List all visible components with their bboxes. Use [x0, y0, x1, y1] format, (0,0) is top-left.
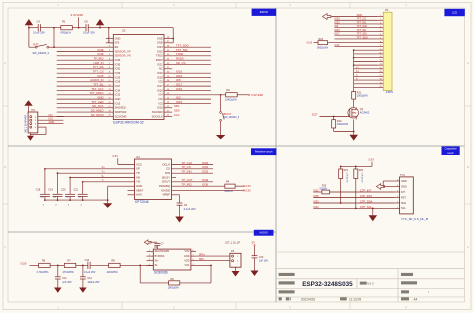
svg-text:IO13: IO13 — [115, 101, 121, 105]
svg-text:3V3: 3V3 — [115, 41, 120, 45]
svg-text:GND: GND — [49, 120, 55, 124]
power flag 5V audio — [252, 241, 256, 256]
svg-text:4: 4 — [380, 26, 381, 28]
svg-text:0Ω±5%: 0Ω±5% — [320, 189, 327, 191]
svg-text:IO23: IO23 — [157, 45, 163, 49]
ground below C13 — [251, 271, 259, 277]
svg-text:3.3V: 3.3V — [334, 44, 339, 47]
svg-text:Q1: Q1 — [360, 107, 364, 111]
svg-text:9: 9 — [380, 45, 381, 47]
power flag 3.3V ESP right — [248, 93, 263, 97]
svg-text:R2: R2 — [227, 88, 231, 92]
svg-text:2: 2 — [149, 255, 150, 257]
svg-text:TP_DIN: TP_DIN — [182, 169, 192, 173]
wire CTP_SCL — [313, 205, 394, 209]
svg-text:IN+: IN+ — [155, 260, 159, 263]
svg-text:GND: GND — [184, 255, 190, 258]
svg-text:10KΩ±1%: 10KΩ±1% — [225, 97, 237, 101]
svg-text:TFT_SDI: TFT_SDI — [357, 33, 367, 36]
wire TP_IRQ with resistor R4 — [172, 181, 251, 193]
svg-text:3.3V: 3.3V — [368, 158, 374, 162]
wire CTP_SDA — [313, 199, 394, 203]
title row product name — [279, 273, 413, 276]
svg-text:IO33: IO33 — [202, 169, 209, 173]
wire touch XY lines with caps — [44, 165, 134, 183]
svg-text:RST: RST — [33, 42, 39, 46]
svg-text:AO3402: AO3402 — [360, 111, 370, 115]
svg-text:IO19: IO19 — [157, 71, 163, 75]
wire IO0 BOOT net — [172, 94, 226, 96]
wire U3 GND VBAT AUX — [108, 186, 135, 200]
svg-text:IO16: IO16 — [334, 29, 340, 32]
svg-text:IO22: IO22 — [157, 49, 163, 53]
svg-text:11:13:09: 11:13:09 — [349, 297, 361, 301]
svg-text:CTP_SCL: CTP_SCL — [360, 205, 373, 209]
svg-text:560Ω±5%: 560Ω±5% — [317, 46, 329, 49]
svg-text:2: 2 — [380, 19, 381, 21]
svg-text:16: 16 — [379, 71, 381, 73]
svg-text:22KΩ±5%: 22KΩ±5% — [107, 271, 119, 274]
svg-text:4: 4 — [405, 306, 407, 310]
svg-text:JST_1.25_2P: JST_1.25_2P — [225, 241, 240, 244]
svg-text:14PIN: 14PIN — [386, 90, 393, 94]
svg-text:C18: C18 — [36, 189, 41, 192]
svg-text:IO26: IO26 — [115, 80, 121, 84]
svg-text:AUDIO: AUDIO — [260, 231, 268, 235]
svg-text:0.1uF 25V: 0.1uF 25V — [84, 271, 96, 274]
svg-text:SENSOR_VN: SENSOR_VN — [115, 54, 131, 58]
svg-text:IO33: IO33 — [334, 18, 340, 21]
svg-text:C6: C6 — [184, 203, 188, 207]
svg-text:IO32: IO32 — [334, 21, 340, 24]
capacitor C7 bypass — [151, 242, 165, 249]
power flag 3.3V XPT2046 — [112, 154, 134, 164]
svg-text:20: 20 — [379, 86, 381, 88]
wire CTP_RST — [313, 194, 394, 198]
svg-text:4: 4 — [405, 3, 407, 7]
svg-text:SCS/CMD: SCS/CMD — [115, 114, 127, 118]
svg-text:15: 15 — [379, 67, 381, 69]
capacitor C4 — [33, 19, 45, 34]
svg-text:IO17: IO17 — [157, 84, 163, 88]
svg-text:5: 5 — [380, 30, 381, 32]
svg-text:3: 3 — [149, 259, 150, 261]
svg-text:B: B — [467, 165, 469, 169]
connector P3 — [26, 108, 38, 133]
wire Q1 gate IO27 — [312, 113, 350, 118]
wire LCD 3.3V row — [334, 44, 377, 47]
svg-text:5V: 5V — [252, 241, 256, 245]
svg-text:SCL: SCL — [401, 207, 406, 210]
svg-text:P1: P1 — [385, 8, 389, 12]
svg-text:IO2: IO2 — [159, 101, 164, 105]
svg-text:GND: GND — [157, 41, 163, 45]
svg-text:IO4: IO4 — [334, 25, 339, 28]
svg-text:1: 1 — [380, 15, 381, 17]
svg-text:6: 6 — [397, 180, 398, 182]
svg-text:104: 104 — [78, 197, 81, 199]
svg-text:Y-: Y- — [356, 75, 358, 77]
svg-text:IO33: IO33 — [115, 71, 121, 75]
svg-text:VO2: VO2 — [185, 250, 191, 253]
svg-text:1: 1 — [57, 3, 59, 7]
svg-text:RXD0: RXD0 — [156, 58, 163, 62]
svg-text:IO15: IO15 — [157, 106, 163, 110]
section label ESP32 — [252, 9, 277, 16]
svg-text:5: 5 — [192, 264, 193, 266]
svg-text:CTP_SDA: CTP_SDA — [360, 199, 373, 203]
resistor R8 — [107, 260, 121, 275]
svg-text:19: 19 — [379, 82, 381, 84]
svg-text:3: 3 — [289, 306, 291, 310]
svg-text:13: 13 — [379, 60, 381, 62]
svg-text:2: 2 — [397, 202, 398, 204]
svg-text:GND: GND — [157, 36, 163, 40]
ground touch cap bus — [103, 203, 112, 208]
svg-text:Capacitive: Capacitive — [445, 146, 458, 150]
svg-text:TFT_RS: TFT_RS — [357, 21, 367, 24]
svg-text:C8: C8 — [84, 19, 88, 23]
ground below P3 — [27, 136, 34, 141]
wire bundle U2 left nets — [57, 48, 106, 117]
svg-text:47KΩ±5%: 47KΩ±5% — [63, 271, 75, 274]
wire captouch GND rows to arrow — [383, 181, 394, 187]
resistor R2 — [225, 88, 248, 101]
svg-text:X-: X- — [356, 79, 359, 81]
svg-text:104: 104 — [66, 197, 69, 199]
resistor R21 — [352, 91, 369, 107]
svg-text:R23: R23 — [359, 170, 364, 172]
svg-text:BOOT: BOOT — [224, 112, 232, 116]
ground captouch — [369, 215, 378, 221]
resistor R9 feedback — [140, 265, 212, 290]
svg-text:3: 3 — [397, 196, 398, 198]
svg-text:P3: P3 — [32, 108, 36, 112]
svg-text:SENSOR_VP: SENSOR_VP — [115, 49, 131, 53]
svg-text:IO35: IO35 — [115, 62, 121, 66]
svg-text:GND: GND — [357, 14, 363, 17]
svg-text:TXD0: TXD0 — [156, 54, 163, 58]
wire LCD GND bus arrow — [331, 14, 378, 17]
wire EN net — [53, 46, 106, 48]
section label AUDIO — [254, 230, 274, 236]
bus arrow audio left — [144, 240, 151, 245]
section label Capacitive touch — [442, 146, 460, 155]
connector P2 TYC touch panel — [395, 173, 428, 221]
svg-text:IO4: IO4 — [159, 93, 164, 97]
svg-text:1nF 25V: 1nF 25V — [62, 281, 72, 284]
wire U2 3V3 to rail — [109, 28, 114, 43]
svg-text:104: 104 — [53, 197, 56, 199]
svg-text:TFT_SDO: TFT_SDO — [357, 36, 368, 39]
svg-text:IO13: IO13 — [307, 40, 313, 44]
ground below Q1 — [349, 135, 358, 141]
capacitor C13 — [252, 256, 269, 271]
power flag 3.3V ESP — [71, 13, 84, 28]
svg-text:SWP/SD3: SWP/SD3 — [115, 110, 127, 114]
section label LCD — [444, 9, 464, 16]
power flag above P3 — [24, 100, 32, 112]
resistor R7 — [63, 260, 76, 275]
wire bundle touch SPI — [172, 161, 214, 182]
svg-text:BYPASS: BYPASS — [155, 255, 165, 258]
svg-text:104: 104 — [40, 197, 43, 199]
svg-text:R22: R22 — [344, 170, 349, 172]
capacitor C6 on VREF — [172, 195, 197, 217]
power flag 3.3V rail arrow 1 — [25, 19, 33, 28]
capacitor C11 — [55, 265, 72, 287]
svg-text:VO1: VO1 — [185, 264, 191, 267]
ground below P4 — [232, 271, 240, 277]
capacitor C21 — [74, 182, 88, 207]
svg-text:CTP_RST: CTP_RST — [360, 194, 373, 198]
svg-text:4: 4 — [149, 264, 150, 266]
svg-text:1: 1 — [397, 207, 398, 209]
power flag 3.3V rail arrow 2 — [96, 19, 104, 28]
capacitor C12 — [80, 265, 100, 287]
svg-text:GND: GND — [115, 36, 121, 40]
svg-text:SC8002B: SC8002B — [154, 271, 168, 275]
svg-text:SDA: SDA — [401, 202, 406, 205]
svg-text:TYC_6P_0.5_NL_B: TYC_6P_0.5_NL_B — [401, 217, 428, 221]
wire audio input chain — [30, 265, 154, 267]
svg-text:4: 4 — [397, 191, 398, 193]
transistor Q1 AO3402 — [348, 107, 370, 120]
svg-text:/V1.3: /V1.3 — [367, 282, 374, 286]
svg-text:U3: U3 — [136, 155, 140, 159]
svg-text:IO36: IO36 — [202, 182, 209, 186]
svg-text:8: 8 — [192, 250, 193, 252]
capacitor C8 — [83, 19, 95, 34]
svg-text:IO17: IO17 — [334, 33, 340, 36]
svg-text:B: B — [4, 165, 6, 169]
wire CTP_INT with resistor R25 — [313, 186, 394, 194]
svg-text:SW_240404_3: SW_240404_3 — [224, 117, 240, 119]
wire touch cap ground bus — [45, 199, 109, 203]
svg-text:ESP32-3248S035: ESP32-3248S035 — [302, 281, 353, 288]
svg-text:100Ω±5%: 100Ω±5% — [357, 94, 369, 97]
svg-text:VREF: VREF — [162, 193, 170, 197]
svg-text:TYC: TYC — [400, 173, 405, 177]
svg-text:2: 2 — [173, 3, 175, 7]
svg-text:IO3: IO3 — [49, 117, 54, 121]
svg-text:4.7KΩ±5%: 4.7KΩ±5% — [37, 271, 50, 274]
op-amp U4 SC8002B audio amplifier — [147, 245, 197, 274]
svg-text:SW_240404_3: SW_240404_3 — [33, 52, 50, 55]
svg-text:ESP32: ESP32 — [260, 10, 269, 14]
svg-text:10: 10 — [379, 49, 381, 51]
section label Resistive touch — [251, 148, 276, 155]
svg-text:IO0: IO0 — [159, 97, 164, 101]
svg-text:R1: R1 — [62, 19, 66, 23]
wire P3 pin4 to ground — [30, 127, 46, 136]
op-amp U3 XPT2046 body — [135, 155, 172, 204]
svg-text:SPK+: SPK+ — [199, 253, 206, 256]
ground below BOOT — [216, 135, 226, 139]
svg-text:RST: RST — [401, 196, 406, 199]
capacitor C20 — [61, 177, 75, 206]
title row product model ESP32-3248S035 — [279, 279, 417, 289]
svg-text:2: 2 — [173, 306, 175, 310]
svg-text:INT: INT — [401, 191, 405, 194]
svg-text:5: 5 — [397, 185, 398, 187]
title row product number — [279, 290, 429, 294]
svg-text:C11: C11 — [62, 277, 67, 280]
svg-text:SPK-: SPK- — [199, 258, 205, 261]
svg-text:IO25: IO25 — [115, 75, 121, 79]
svg-text:CTP_INT: CTP_INT — [360, 188, 372, 192]
switch SW2 BOOT — [220, 95, 240, 135]
wire IOVDD 3.3V — [172, 188, 251, 192]
wire speaker outputs — [196, 253, 230, 261]
svg-text:SCK/CLK: SCK/CLK — [152, 114, 163, 118]
svg-text:Y-: Y- — [102, 178, 104, 182]
connector P4 speaker JST — [225, 241, 241, 271]
svg-text:SD1/SD0: SD1/SD0 — [152, 110, 163, 114]
svg-text:IN-: IN- — [155, 264, 158, 267]
connector P1 LCD 14PIN — [378, 8, 394, 94]
resistor R24 — [307, 38, 378, 49]
svg-text:R24: R24 — [319, 38, 324, 41]
svg-text:LCD: LCD — [452, 10, 457, 14]
svg-text:8: 8 — [380, 41, 381, 43]
svg-text:X+: X+ — [102, 165, 106, 169]
svg-text:0RΩ±1%: 0RΩ±1% — [61, 31, 72, 35]
capacitor C10 — [84, 259, 96, 274]
title row date — [279, 297, 418, 301]
capacitor C19 — [48, 173, 62, 206]
svg-text:IO16: IO16 — [157, 88, 163, 92]
ground below C11 — [54, 288, 62, 293]
svg-text:SD_MOSI: SD_MOSI — [91, 113, 104, 117]
svg-text:C20: C20 — [61, 189, 66, 192]
svg-text:IO27: IO27 — [312, 113, 318, 117]
svg-text:IO1: IO1 — [49, 113, 54, 117]
svg-text:A4: A4 — [414, 297, 418, 301]
svg-text:TFT_RD: TFT_RD — [357, 29, 367, 32]
svg-text:IO14: IO14 — [115, 88, 121, 92]
svg-text:IO12: IO12 — [115, 93, 121, 97]
svg-text:3.3V: 3.3V — [245, 188, 251, 192]
wire LCD backlight vertical — [353, 49, 378, 91]
svg-text:6: 6 — [380, 34, 381, 36]
svg-text:0.1uF 20V: 0.1uF 20V — [33, 31, 45, 35]
bus entry arrow LCD — [323, 14, 331, 20]
svg-text:GND: GND — [115, 97, 121, 101]
svg-text:7: 7 — [380, 38, 381, 40]
wire 3.3V rail — [28, 27, 173, 29]
resistor R23 — [354, 166, 364, 208]
svg-text:P4: P4 — [231, 249, 235, 253]
power flag 3.3V captouch — [340, 158, 374, 168]
svg-text:18: 18 — [379, 79, 381, 81]
svg-text:12: 12 — [379, 56, 381, 58]
svg-text:SHUTDOWN: SHUTDOWN — [155, 250, 170, 253]
svg-text:U2: U2 — [122, 29, 126, 33]
switch SW1 RST — [29, 28, 54, 55]
svg-text:CLK: CLK — [174, 113, 180, 117]
svg-text:NC: NC — [159, 67, 163, 71]
svg-text:IO21: IO21 — [157, 62, 163, 66]
wire captouch ground stem — [372, 208, 374, 215]
wire bundle U2 right nets — [172, 44, 211, 117]
svg-text:C21: C21 — [74, 189, 79, 192]
svg-text:IO34: IO34 — [115, 58, 121, 62]
svg-text:4.7KΩ±1%: 4.7KΩ±1% — [361, 173, 363, 183]
capacitor C18 — [36, 169, 50, 207]
svg-text:17: 17 — [379, 75, 381, 77]
svg-text:SD_CS: SD_CS — [176, 61, 186, 65]
svg-text:6: 6 — [192, 259, 193, 261]
svg-text:3: 3 — [289, 3, 291, 7]
svg-text:Y+: Y+ — [102, 169, 106, 173]
svg-text:14: 14 — [379, 64, 381, 66]
svg-text:0.1uF 20V: 0.1uF 20V — [184, 207, 196, 211]
svg-text:X-: X- — [102, 174, 105, 178]
U2 pin names and numbers — [106, 36, 172, 118]
svg-text:0.1uF 20V: 0.1uF 20V — [83, 31, 95, 35]
svg-text:MC-1.25-4P#WT: MC-1.25-4P#WT — [26, 114, 28, 132]
wire bundle LCD data rows — [334, 18, 377, 40]
resistor R22 — [339, 166, 349, 203]
resistor R1 — [61, 19, 73, 34]
title block table — [276, 268, 465, 302]
svg-text:TFT_WR: TFT_WR — [357, 25, 367, 28]
ground bus arrow captouch — [376, 184, 384, 190]
op-amp U2 ESP32-WROOM-32 module body — [113, 29, 164, 125]
svg-text:IO5: IO5 — [159, 80, 164, 84]
svg-text:IO16: IO16 — [176, 87, 183, 91]
svg-text:EN: EN — [115, 45, 119, 49]
svg-text:1: 1 — [149, 250, 150, 252]
svg-text:VDD: VDD — [184, 260, 189, 263]
ground below C6 — [175, 217, 184, 223]
svg-text:1: 1 — [57, 306, 59, 310]
svg-text:XPT2046: XPT2046 — [135, 200, 149, 204]
svg-text:Resistive touch: Resistive touch — [255, 150, 273, 154]
svg-text:AUX: AUX — [136, 193, 142, 197]
svg-text:TP_IRQ: TP_IRQ — [182, 182, 193, 186]
svg-text:3.3V: 3.3V — [112, 154, 118, 158]
svg-text:11: 11 — [380, 53, 382, 55]
svg-text:IO26: IO26 — [21, 261, 27, 265]
svg-text:3.3V: 3.3V — [245, 184, 251, 188]
svg-text:GND: GND — [401, 185, 407, 188]
svg-text:IO32: IO32 — [115, 67, 121, 71]
svg-text:touch: touch — [447, 151, 454, 155]
svg-text:C4: C4 — [37, 19, 41, 23]
svg-text:100pF 25V: 100pF 25V — [87, 281, 99, 284]
svg-text:3.3V ESP: 3.3V ESP — [251, 93, 263, 97]
resistor R6 — [37, 260, 51, 275]
svg-text:10KΩ±5%: 10KΩ±5% — [337, 123, 349, 126]
svg-text:IO18: IO18 — [157, 75, 163, 79]
wire Q1 source to ground — [334, 120, 355, 135]
svg-text:C12: C12 — [87, 277, 92, 280]
svg-text:SHD/SD2: SHD/SD2 — [115, 106, 127, 110]
resistor R10 — [332, 117, 349, 132]
wire U2 right GND pins to rail — [172, 28, 174, 43]
svg-text:2022/4/26: 2022/4/26 — [301, 297, 315, 301]
svg-text:1uF 16V: 1uF 16V — [259, 259, 269, 262]
svg-text:4.7KΩ±1%: 4.7KΩ±1% — [346, 173, 348, 183]
svg-text:7: 7 — [192, 255, 193, 257]
svg-text:3: 3 — [380, 23, 381, 25]
svg-text:/: / — [428, 290, 429, 294]
svg-text:TFT_CS: TFT_CS — [357, 18, 367, 21]
svg-text:C10: C10 — [85, 259, 90, 262]
svg-text:GND: GND — [401, 180, 407, 183]
